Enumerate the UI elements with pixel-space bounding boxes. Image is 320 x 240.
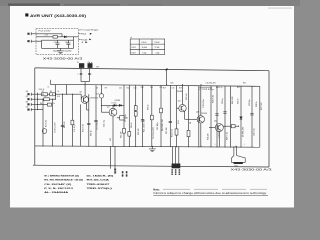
wire Q3-Q4 link xyxy=(185,118,197,120)
svg-text:R17: R17 xyxy=(163,88,166,90)
svg-text:C20 10µ: C20 10µ xyxy=(254,128,256,136)
note rule segments xyxy=(163,188,267,190)
svg-text:C19 47µ: C19 47µ xyxy=(219,130,221,138)
wire vertical x252 xyxy=(251,86,253,147)
svg-text:C22 10µ: C22 10µ xyxy=(249,100,251,106)
svg-text:TR4: TR4 xyxy=(234,165,237,167)
svg-text:C13 10µ: C13 10µ xyxy=(125,114,127,122)
svg-text:R20: R20 xyxy=(171,82,174,84)
svg-text:RT-05-C5A: RT-05-C5A xyxy=(87,179,110,182)
wire cap C1 bottom lead xyxy=(57,44,59,48)
wire Q1 emitter link xyxy=(87,109,89,111)
transistor Q4 xyxy=(197,116,204,123)
wire bottom ground bus xyxy=(35,146,260,147)
wire riser x66 xyxy=(66,85,68,94)
svg-text:47µ(16V): 47µ(16V) xyxy=(53,50,60,52)
connector pin 2 (main) xyxy=(27,98,37,101)
wire vertical x170 xyxy=(169,85,171,146)
wire vertical x96 xyxy=(95,85,97,146)
svg-text:R9: R9 xyxy=(105,88,107,90)
svg-text:R9 100: R9 100 xyxy=(64,121,66,128)
dashed AVR sub-board outline xyxy=(36,29,78,55)
svg-text:R18 82Ω 1W: R18 82Ω 1W xyxy=(162,119,164,131)
svg-text:4 kΩ: 4 kΩ xyxy=(156,52,160,54)
svg-text:KT Coupl R type: KT Coupl R type xyxy=(80,29,99,32)
wire vertical x225 xyxy=(224,86,226,147)
wire cap leg left xyxy=(80,68,82,81)
wire base feed to Q1 xyxy=(37,93,81,95)
transistor Q5 xyxy=(215,124,223,132)
svg-text:C10 22µ: C10 22µ xyxy=(96,122,98,130)
wire diode row xyxy=(102,104,125,106)
capacitor C8 xyxy=(61,125,64,126)
connector B pad dots xyxy=(171,169,173,170)
wire Q3 emitter down xyxy=(184,111,186,119)
svg-text:1S1588: 1S1588 xyxy=(115,100,121,102)
svg-text:8 kΩ: 8 kΩ xyxy=(143,52,147,54)
wire vertical x52 xyxy=(52,99,54,146)
svg-text:CH: 2SC945* (K): CH: 2SC945* (K) xyxy=(44,183,71,186)
node junction dot xyxy=(238,126,239,127)
resistor R17 xyxy=(160,108,163,113)
connector A pads xyxy=(114,169,116,170)
wire pin2 branch xyxy=(37,98,56,100)
wire Q1 collector up xyxy=(84,85,86,96)
resistor R14 xyxy=(134,106,137,111)
node board-edge dots xyxy=(88,61,91,64)
resistor R30 on link xyxy=(231,125,235,128)
svg-text:R22 560: R22 560 xyxy=(186,94,188,100)
svg-text:4.7k: 4.7k xyxy=(57,96,60,98)
svg-text:R31: R31 xyxy=(243,83,246,85)
junction dots bottom bus xyxy=(43,145,44,146)
resistor R12 xyxy=(123,129,126,134)
svg-text:L1: L1 xyxy=(48,87,50,89)
svg-text:C9 47µ 16V: C9 47µ 16V xyxy=(54,122,56,133)
wire vertical x259 xyxy=(259,86,261,147)
connector A pin numbers xyxy=(122,171,124,173)
wire vertical x188 xyxy=(188,86,190,147)
wire second bus hook xyxy=(49,80,51,85)
wire Q2 base feed xyxy=(102,111,110,113)
svg-text:R11: R11 xyxy=(141,87,144,89)
wire vertical x241 xyxy=(240,86,242,147)
node junction on top bus xyxy=(165,68,167,71)
wire Q5 collector link xyxy=(223,125,238,127)
svg-text:R107: R107 xyxy=(132,52,136,54)
svg-text:C18 470µ: C18 470µ xyxy=(203,98,205,108)
wire vertical x88 xyxy=(88,94,90,146)
wire loop top xyxy=(42,39,74,41)
svg-text:R1: R1 xyxy=(42,91,44,93)
svg-text:220: 220 xyxy=(150,87,153,89)
svg-text:C13: C13 xyxy=(134,88,137,90)
wire top supply bus xyxy=(35,68,269,71)
capacitor C16 xyxy=(250,114,253,115)
svg-text:W = WIRING RESISTOR (Ω): W = WIRING RESISTOR (Ω) xyxy=(44,176,79,178)
wire pin1 into box xyxy=(36,33,62,35)
svg-text:B20 4.7µ: B20 4.7µ xyxy=(216,87,222,89)
capacitor C6 bridge xyxy=(80,73,83,74)
wire vertical x142 xyxy=(142,85,144,146)
svg-text:C16 470µ 35V: C16 470µ 35V xyxy=(206,83,217,85)
svg-text:R6: R6 xyxy=(40,103,42,105)
wire Q3 collector up xyxy=(182,85,184,105)
resistor R15 xyxy=(134,112,137,117)
diode D3 xyxy=(99,94,103,98)
wire vertical x124 xyxy=(123,85,125,146)
wire vertical x230 xyxy=(230,86,232,147)
title bullet square xyxy=(25,13,28,16)
wire base jog to Q1 xyxy=(80,94,82,99)
wire Q3 base feed xyxy=(177,107,179,109)
svg-text:C5: C5 xyxy=(88,62,90,64)
svg-text:R14 220: R14 220 xyxy=(121,132,123,138)
svg-text:AL: 2SA564A: AL: 2SA564A xyxy=(44,191,69,194)
output pin P30-4 xyxy=(78,33,92,35)
svg-text:C15 100µ: C15 100µ xyxy=(157,123,159,130)
capacitor C12 xyxy=(141,120,144,121)
wire vertical x217 xyxy=(216,86,218,147)
svg-text:R12: R12 xyxy=(127,88,130,90)
fuse F1 xyxy=(79,63,84,68)
wire Q5 emitter down xyxy=(218,132,220,147)
svg-text:12 kΩ: 12 kΩ xyxy=(155,47,160,49)
wire connector B pin2 xyxy=(175,146,177,163)
diode D1 xyxy=(114,104,116,106)
table resistance values xyxy=(130,39,165,55)
connector pin 2 (dashed box) xyxy=(27,40,37,43)
ground (main) xyxy=(149,146,156,151)
svg-text:R11 100Ω 1W: R11 100Ω 1W xyxy=(144,119,146,132)
wire cap leg right xyxy=(88,68,90,81)
wire vertical x80 xyxy=(80,104,82,146)
wire drop to main rail xyxy=(61,34,63,37)
svg-text:R30 1k: R30 1k xyxy=(256,101,258,107)
wire second supply bus xyxy=(50,84,259,86)
wire loop bottom xyxy=(42,47,74,49)
svg-text:LT C18 470µ: LT C18 470µ xyxy=(199,89,214,91)
wire pin4 branch xyxy=(37,109,43,111)
svg-text:R25 1.2k: R25 1.2k xyxy=(226,132,228,140)
svg-text:R26 220: R26 220 xyxy=(232,96,234,104)
svg-text:AVR UNIT (X43-3030-00): AVR UNIT (X43-3030-00) xyxy=(30,13,87,18)
output pin P30-B xyxy=(78,39,91,41)
wire Q4 collector up xyxy=(200,86,202,116)
transistor Q2 xyxy=(109,108,117,116)
svg-text:1k: 1k xyxy=(53,103,55,105)
capacitor C7 bridge xyxy=(88,73,91,74)
diode D2 on rail xyxy=(64,36,66,38)
svg-text:PS-02: PS-02 xyxy=(155,42,160,44)
resistor R21 xyxy=(187,130,190,136)
svg-text:470: 470 xyxy=(110,138,112,141)
wire pin2 into box xyxy=(36,40,42,42)
svg-text:PC1 D1 R2: PC1 D1 R2 xyxy=(39,30,51,32)
wire vertical x129 xyxy=(128,85,130,146)
wire bridge to second bus xyxy=(84,82,86,85)
svg-text:C14: C14 xyxy=(159,87,162,89)
svg-text:2SC945(Y): 2SC945(Y) xyxy=(90,98,99,100)
resistor R16 xyxy=(150,115,153,120)
resistor R8 xyxy=(71,120,74,125)
wire pin3 branch xyxy=(37,103,52,105)
wire cap C2 bottom lead xyxy=(67,44,69,48)
connector B body xyxy=(172,164,181,169)
svg-text:X43-3030-00 A/3: X43-3030-00 A/3 xyxy=(231,169,274,172)
wire vertical x62 xyxy=(62,94,64,146)
svg-text:R19 4.7k: R19 4.7k xyxy=(172,129,174,137)
capacitor C13 xyxy=(169,121,172,122)
svg-text:C15: C15 xyxy=(172,88,175,90)
transformer tap TR4 xyxy=(232,146,246,164)
wire vertical x211 xyxy=(210,86,212,147)
svg-text:47µ(16V): 47µ(16V) xyxy=(64,50,71,52)
transistor Q3 xyxy=(179,105,186,112)
svg-text:C21 1µ: C21 1µ xyxy=(222,98,224,104)
svg-text:PS-01: PS-01 xyxy=(142,42,147,44)
svg-text:C8: C8 xyxy=(96,88,98,90)
svg-text:R15 1k: R15 1k xyxy=(147,104,149,110)
svg-text:R5: R5 xyxy=(44,96,46,98)
wire left frame edge xyxy=(34,68,36,165)
wire pin header vertical xyxy=(36,93,38,110)
capacitor C15 xyxy=(215,114,218,115)
wire vertical x198 xyxy=(198,86,200,147)
svg-text:2SD880: 2SD880 xyxy=(177,91,183,93)
wire Q5 base feed xyxy=(209,127,215,129)
svg-text:Circuit is subject to change w: Circuit is subject to change without not… xyxy=(153,192,267,195)
wire vertical x72 xyxy=(71,94,73,146)
svg-text:R10 5.6k: R10 5.6k xyxy=(82,124,84,132)
connector pin 1 (main) xyxy=(27,93,37,96)
svg-text:C12 4.7µ: C12 4.7µ xyxy=(103,120,105,127)
svg-text:D1 D2: D1 D2 xyxy=(112,103,117,105)
junction dots xyxy=(42,94,43,95)
wire Q1 emitter down xyxy=(86,103,88,110)
svg-text:TRD-83627: TRD-83627 xyxy=(87,184,112,186)
transistor Q1 xyxy=(81,96,88,103)
wire right frame edge xyxy=(268,71,270,167)
connector pin 1 (dashed box) xyxy=(27,32,37,35)
svg-text:16,000: 16,000 xyxy=(142,47,148,49)
svg-text:C14 47µ 16V: C14 47µ 16V xyxy=(153,127,155,139)
resistor R5 xyxy=(44,98,50,101)
wire vertical x151 xyxy=(151,85,153,146)
wire vertical x135 xyxy=(135,85,137,146)
svg-text:R27: R27 xyxy=(237,87,240,89)
wire connector A pin1 xyxy=(110,146,112,168)
resistor R13 xyxy=(128,132,131,137)
wire to VR1 xyxy=(117,117,120,119)
wire vertical x43 xyxy=(42,99,44,146)
svg-text:Note:: Note: xyxy=(153,188,160,191)
resistor R3 on rail xyxy=(53,36,57,39)
svg-text:DI, 1N4CR, (N): DI, 1N4CR, (N) xyxy=(87,175,114,178)
wire connector B pin3 xyxy=(178,146,180,163)
wire D3 top lead xyxy=(101,85,103,94)
resistor R2 xyxy=(50,93,56,96)
svg-text:R28 220: R28 220 xyxy=(207,134,209,140)
svg-text:P30-4: P30-4 xyxy=(81,34,86,36)
svg-text:P, S, N: 2SC1213: P, S, N: 2SC1213 xyxy=(44,188,74,190)
svg-text:R29 47: R29 47 xyxy=(238,98,240,104)
svg-text:R101: R101 xyxy=(132,47,136,49)
wire vertical x161 xyxy=(160,85,162,146)
svg-text:D5 WZ-090: D5 WZ-090 xyxy=(243,126,245,137)
capacitor C5 block xyxy=(88,63,93,68)
connector pin 3 (main) xyxy=(27,103,37,106)
wire connector A pin2 xyxy=(114,146,116,168)
wire connector B pin1 xyxy=(171,146,173,163)
wire Q2 emitter down xyxy=(112,116,114,146)
diode D4 xyxy=(240,117,243,119)
resistor R20 xyxy=(175,129,178,135)
svg-text:1k: 1k xyxy=(58,91,60,93)
wire cap C1 top lead xyxy=(57,40,59,43)
svg-text:C11 47µ: C11 47µ xyxy=(74,124,76,132)
svg-text:C3-4: C3-4 xyxy=(65,42,69,44)
svg-text:R27 560: R27 560 xyxy=(261,102,263,110)
wire loop right xyxy=(73,37,75,49)
connector pin 4 (main) xyxy=(27,108,37,111)
svg-text:D3: D3 xyxy=(96,94,98,96)
svg-text:R7 2.2k: R7 2.2k xyxy=(46,120,48,127)
svg-text:C1-2: C1-2 xyxy=(54,42,58,44)
svg-text:R19: R19 xyxy=(179,88,182,90)
wire Q4 emitter down xyxy=(200,123,202,147)
wire cap C2 top lead xyxy=(67,40,69,43)
capacitor C23 xyxy=(223,112,226,113)
svg-text:2.2k: 2.2k xyxy=(45,34,48,36)
svg-text:C10: C10 xyxy=(119,88,122,90)
wire C18 link xyxy=(199,87,212,89)
resistor R6 xyxy=(47,103,51,106)
svg-text:X43-3030-00 A/3: X43-3030-00 A/3 xyxy=(43,58,84,61)
ground (dashed box) xyxy=(57,48,64,53)
wire D3 bottom lead xyxy=(101,98,103,112)
capacitor C1 xyxy=(56,43,60,44)
svg-text:F1: F1 xyxy=(77,62,79,64)
svg-text:TRD-579(L): TRD-579(L) xyxy=(87,188,113,190)
wire Q2 collector up xyxy=(112,105,114,108)
potentiometer VR1 xyxy=(120,116,124,120)
diode D2 xyxy=(119,104,121,106)
wire main rail of dashed box xyxy=(36,36,78,38)
wire cap bridge bottom xyxy=(81,81,89,83)
svg-text:2SD313: 2SD313 xyxy=(201,113,207,115)
svg-text:R16 1k: R16 1k xyxy=(131,122,133,128)
transistor Q5 small xyxy=(42,129,47,134)
svg-text:R2: R2 xyxy=(50,91,52,93)
capacitor C2 xyxy=(66,43,70,44)
wire junction drop x166 xyxy=(166,70,168,86)
capacitor C9 xyxy=(87,123,90,124)
svg-text:R24 8.2k: R24 8.2k xyxy=(212,95,214,103)
wire loop left xyxy=(41,40,43,48)
note underline xyxy=(153,194,268,196)
wire bottom frame edge xyxy=(33,165,269,167)
wire vertical x176 xyxy=(176,86,178,147)
capacitor C10 xyxy=(94,120,97,121)
resistor R1 xyxy=(42,93,48,96)
wire riser x55 xyxy=(54,85,56,99)
svg-text:R13 560: R13 560 xyxy=(138,129,140,135)
svg-text:R12 1k: R12 1k xyxy=(91,130,93,136)
svg-text:R17 330: R17 330 xyxy=(166,128,168,134)
